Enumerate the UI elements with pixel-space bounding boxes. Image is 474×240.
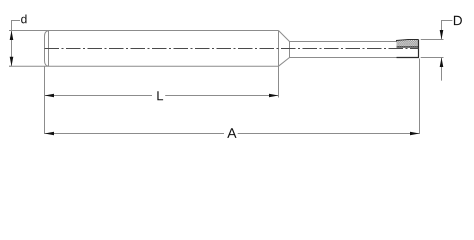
dimension A: label xyxy=(227,128,236,138)
A right extension line xyxy=(419,59,421,135)
L right extension line xyxy=(278,66,280,97)
dimension L: line right segment xyxy=(165,95,278,97)
dimension A: left arrowhead xyxy=(45,132,55,136)
dimension d: leader elbow xyxy=(12,21,21,31)
tip end edge xyxy=(418,40,420,58)
dimension D: leader elbow xyxy=(442,21,453,40)
dimension D: lower line xyxy=(441,58,443,81)
body bottom edge (with d bottom extension line, colinear) xyxy=(9,65,279,67)
dimension d: top arrowhead xyxy=(10,31,14,41)
body top edge (with d top extension line, colinear) xyxy=(9,30,279,32)
d extension stubs xyxy=(9,30,12,32)
tip zone bottom line xyxy=(397,46,419,48)
dimension L: right arrowhead xyxy=(269,94,279,98)
body left face (rounded-corner end) xyxy=(45,31,49,66)
dimension d: dimension line xyxy=(11,31,13,67)
L/A shared left extension line xyxy=(44,66,46,134)
taper top diagonal xyxy=(279,31,290,42)
shaft bottom edge dark segment under tip zone xyxy=(397,57,420,59)
taper bottom diagonal xyxy=(279,58,290,67)
dimension d: bottom arrowhead xyxy=(10,57,14,66)
shaft top edge xyxy=(290,41,397,43)
dimension D: bottom extension line xyxy=(421,57,444,59)
dimension D: upper arrowhead (down) xyxy=(440,30,444,40)
dimension A: line left segment xyxy=(45,133,225,135)
centerline xyxy=(45,48,419,50)
tip zone top outline xyxy=(397,40,419,42)
dimension L: line left segment xyxy=(45,95,153,97)
shaft bottom edge xyxy=(290,57,397,59)
dimension D: top extension line xyxy=(421,39,444,41)
dimension L: left arrowhead xyxy=(45,94,55,98)
dimension A: right arrowhead xyxy=(410,132,420,136)
dimension D: label xyxy=(454,16,462,25)
hatched tip zone fill xyxy=(397,40,419,48)
dimension L: label xyxy=(157,91,163,100)
dimension A: line right segment xyxy=(238,133,420,135)
body right end line xyxy=(278,31,280,67)
taper/shaft junction line xyxy=(289,42,291,58)
dimension d: label xyxy=(21,15,26,24)
body left corner tangent line xyxy=(48,31,50,67)
dimension D: lower arrowhead (up) xyxy=(440,58,444,68)
